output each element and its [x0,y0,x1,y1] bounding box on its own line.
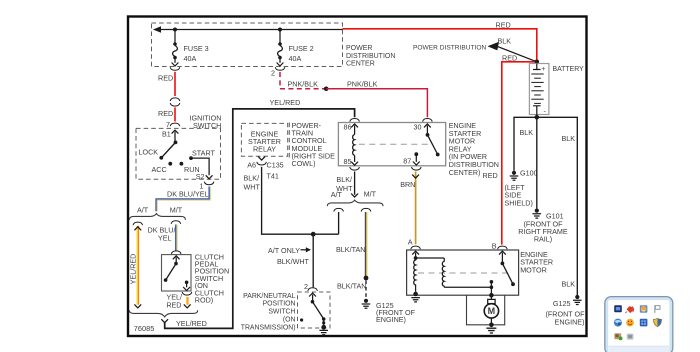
svg-text:30: 30 [414,123,422,132]
label A/T ONLY with arrow [268,246,311,255]
svg-text:POWER DISTRIBUTION: POWER DISTRIBUTION [413,44,487,51]
svg-text:M: M [488,306,496,316]
connector A/T branch left [133,222,143,225]
splice brace A/T M/T middle [327,200,383,206]
wire START contact to pin S2 [191,158,213,179]
engine starter relay dashed box in PCM [241,123,287,156]
svg-text:ACC: ACC [152,165,167,174]
park neutral position switch box [298,292,331,328]
svg-text:BLK: BLK [562,134,576,143]
wire BLK battery to G101 [536,117,538,208]
svg-text:POWER: POWER [346,45,372,52]
motor enclosure [467,295,505,325]
starter pull-in coil [414,258,416,292]
tray icon flag [655,305,660,313]
starter internal dashed link [418,272,511,274]
inline connector on RED wire [170,98,180,106]
svg-text:LOCK: LOCK [139,147,159,156]
label power distribution center [346,45,395,68]
svg-text:A/T ONLY: A/T ONLY [268,246,300,255]
svg-text:YEL/RED: YEL/RED [176,319,207,328]
svg-text:C135: C135 [267,160,284,169]
svg-text:PNK/BLK: PNK/BLK [347,79,378,88]
wire RED battery to starter B [502,62,537,245]
svg-text:DISTRIBUTION: DISTRIBUTION [449,161,499,169]
svg-text:BLK: BLK [562,279,576,288]
svg-text:A/T: A/T [137,206,149,215]
PCM dashed edge [288,123,290,159]
wire BLK/TAN M/T branch [365,212,366,276]
svg-text:RELAY: RELAY [253,145,276,154]
svg-text:RELAY: RELAY [449,145,472,153]
tray icon blue square [640,319,648,327]
node fuse3 bus junction [173,28,177,32]
label BLK/ WHT mid [336,175,353,193]
relay contact 87 [412,152,422,170]
connector A6 C135 below PCM [257,157,267,165]
node motor feed [489,293,494,298]
svg-text:CENTER): CENTER) [449,169,481,177]
svg-text:RED: RED [502,53,517,62]
connector A/T branch middle [334,208,344,211]
tray icon shield [653,318,661,326]
connector pin 2 park neutral [308,288,318,300]
wire BLK to power distribution arrow [488,42,537,62]
label BLK/WHT T41 [244,172,279,192]
tray icon contact [614,333,622,340]
park neutral switch arm [300,300,326,330]
svg-text:76085: 76085 [134,324,155,333]
svg-text:BLK/: BLK/ [336,175,352,184]
svg-text:STARTER: STARTER [449,130,481,138]
wire PNK/BLK solid to relay pin 30 [326,89,427,118]
svg-text:FUSE 3: FUSE 3 [184,44,209,53]
svg-text:BATTERY: BATTERY [553,66,585,73]
svg-text:WHT: WHT [244,183,261,192]
tray icon browser [614,319,622,327]
node BLK/TAN junction [364,276,369,281]
svg-text:M/T: M/T [364,190,377,199]
svg-text:BLK: BLK [498,37,512,46]
node starter coil top [414,256,418,260]
fuse F3 40A [170,30,180,71]
svg-text:ROD): ROD) [195,296,213,305]
connector at clutch switch top [171,251,181,262]
svg-text:40A: 40A [184,54,197,63]
wire YEL/RED left vertical [134,226,141,308]
svg-text:RED: RED [158,109,173,118]
svg-text:RED: RED [158,74,173,83]
svg-text:BLK/: BLK/ [244,174,260,183]
svg-text:BLK/WHT: BLK/WHT [277,257,310,266]
diagram outer border [128,17,587,337]
label YEL/ RED below clutch [166,293,182,310]
engine starter motor box [407,250,519,295]
label ENGINE STARTER RELAY [248,129,281,153]
svg-text:G100: G100 [520,169,538,178]
starter switch arm [501,262,515,287]
wire BLK/WHT from A6 to junction [262,167,339,234]
ground starter coil [411,298,420,302]
tray icon speaker [625,306,633,313]
node motor ground [489,323,494,328]
system tray popup window [605,297,673,352]
wire BRN relay 87 to starter A [412,172,419,245]
svg-text:COWL): COWL) [292,159,316,168]
node BLK/WHT junction [311,232,316,237]
svg-text:ENGINE): ENGINE) [555,317,585,326]
label ENGINE STARTER MOTOR RELAY [449,122,499,177]
relay internal dashed link [359,143,431,145]
svg-text:YEL/RED: YEL/RED [129,254,138,285]
svg-text:(IN POWER: (IN POWER [449,153,487,161]
connector relay pin 86 [350,119,360,135]
svg-text:SHIELD): SHIELD) [505,198,533,207]
svg-text:BLK: BLK [520,128,534,137]
svg-text:M/T: M/T [170,205,183,214]
node battery negative [535,115,540,120]
connector M/T branch middle [361,208,371,211]
label FUSE 3 40A [184,44,209,63]
ground G125 middle [362,299,371,309]
label left side shield [505,183,533,207]
svg-text:BLK/TAN: BLK/TAN [336,245,365,254]
svg-text:SWITCH: SWITCH [268,309,295,316]
tray icon update [640,305,648,312]
wire DK BLU/YEL to clutch switch [176,225,177,251]
svg-text:BRN: BRN [400,180,415,189]
svg-text:A6: A6 [247,160,256,169]
svg-text:G125: G125 [553,299,571,308]
svg-text:B: B [492,241,497,250]
label front of right frame rail [518,219,568,243]
tray icon gray [627,334,634,340]
svg-text:YEL/RED: YEL/RED [270,98,301,107]
wire junction to park neutral switch [312,234,314,287]
svg-text:(ON: (ON [283,317,296,324]
wire BLK battery to G100 [514,117,537,171]
svg-text:MOTOR: MOTOR [449,138,475,146]
label PARK/NEUTRAL POSITION SWITCH [241,293,296,332]
clutch pedal position switch box [162,255,192,291]
wire PNK/BLK dashed from fuse 2 [280,72,324,89]
engine starter motor relay box [338,123,445,166]
wire starter coil bridge [416,257,445,259]
svg-text:TRANSMISSION): TRANSMISSION) [241,324,296,331]
ground park neutral [319,330,328,334]
svg-text:ENGINE: ENGINE [449,122,476,130]
svg-text:+: + [541,66,545,73]
svg-text:A/T: A/T [331,190,343,199]
splice brace A/T M/T left [129,214,185,220]
tray icon smiley [626,319,634,327]
starter hold-in coil [442,258,491,287]
connector relay pin 85 [350,162,360,170]
svg-text:CENTER: CENTER [346,61,375,68]
connector pin 7 of ignition switch [170,123,180,141]
svg-text:RED: RED [166,300,181,309]
wire dashed to G125 middle [365,281,367,299]
wire YEL/RED below clutch switch [184,297,191,308]
svg-text:S2: S2 [196,172,205,181]
relay switch arm [426,133,440,156]
svg-text:BLK/TAN: BLK/TAN [337,282,366,291]
node PNK/BLK junction [324,87,329,92]
connector relay pin 30 [423,119,433,134]
label front of engine right [546,310,586,327]
svg-text:86: 86 [344,122,352,131]
node battery positive [535,60,540,65]
label CLUTCH PEDAL POSITION SWITCH [195,252,229,304]
svg-text:RED: RED [496,21,511,30]
connector pin 1 below ignition [204,182,214,185]
bus wire in PDC [153,26,343,32]
svg-text:PNK/BLK: PNK/BLK [288,79,319,88]
node fuse2 bus junction [278,28,282,32]
svg-text:PARK/NEUTRAL: PARK/NEUTRAL [243,293,295,300]
relay coil [353,135,355,163]
label front of engine middle [376,308,416,324]
svg-text:40A: 40A [289,54,302,63]
label ENGINE STARTER MOTOR [520,250,553,274]
label FUSE 2 40A [289,44,314,63]
clutch switch output connector [182,284,192,295]
svg-text:2: 2 [271,69,275,78]
svg-text:FUSE 2: FUSE 2 [289,44,314,53]
ground G100 [510,171,519,181]
fuse F2 40A [275,30,285,71]
label DK BLU/ YEL [148,226,176,243]
ignition switch arm and contacts [159,141,193,166]
ground G125 right [573,295,582,305]
wire RED lower to ignition pin 7 [174,108,176,122]
wire YEL/RED merged to PCM riser [165,109,355,329]
wire RED bus to battery [343,29,537,60]
power distribution center box [152,23,343,67]
wire BLK battery to G125 right [537,117,578,295]
wire DK BLU/YEL from ignition to split [156,187,210,212]
ignition switch box [136,128,221,179]
merge bracket bottom left [129,310,197,323]
svg-text:85: 85 [344,157,352,166]
wire A/T branch to junction [338,212,340,234]
svg-text:YEL: YEL [158,233,172,242]
clutch switch arm [164,262,189,284]
svg-text:A: A [408,237,413,246]
svg-text:RAIL): RAIL) [534,235,552,244]
label POWERTRAIN CONTROL MODULE [292,121,336,168]
svg-text:MOTOR: MOTOR [520,265,547,274]
svg-text:RED: RED [483,171,498,180]
ground G101 [533,209,542,219]
tray icon hp [614,305,622,312]
connector M/T branch left [171,221,181,224]
wire BLK/WHT from relay 85 to split [351,172,358,198]
wire RED fuse3 to ignition upper [174,72,176,96]
svg-text:DK BLU/YEL: DK BLU/YEL [167,189,209,198]
svg-text:B1: B1 [162,130,171,139]
svg-text:7: 7 [166,120,170,129]
svg-text:START: START [192,148,216,157]
motor M1 [484,295,498,324]
battery [529,64,549,117]
connector starter terminal A [411,246,421,256]
svg-text:POSITION: POSITION [263,301,296,308]
svg-text:ENGINE): ENGINE) [376,315,406,324]
svg-text:2: 2 [304,282,308,291]
connector starter terminal B [498,246,508,262]
node starter coil ground [413,292,418,297]
label IGNITION SWITCH [190,113,222,130]
svg-text:T41: T41 [267,172,279,181]
ground motor [486,328,496,333]
svg-text:87: 87 [403,157,411,166]
svg-text:DISTRIBUTION: DISTRIBUTION [346,53,395,60]
starter switch contact to motor [490,280,494,295]
